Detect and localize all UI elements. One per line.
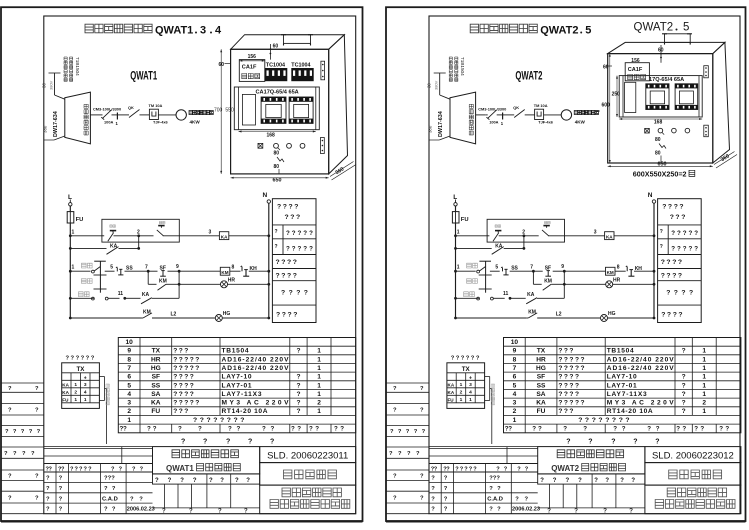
titleblock company cell (Shenzhen Shilede Electric) xyxy=(260,485,356,514)
svg-text:?: ? xyxy=(59,496,63,502)
svg-text:1: 1 xyxy=(72,229,75,235)
stop button SS contact xyxy=(501,266,533,275)
svg-text:SS: SS xyxy=(511,266,518,272)
revision margin text xyxy=(390,429,426,435)
titleblock scale/sheet header row xyxy=(538,474,645,484)
svg-text:?: ? xyxy=(91,356,95,362)
svg-text:MY3 AC 220V: MY3 AC 220V xyxy=(607,400,675,407)
svg-text:+: + xyxy=(84,375,87,381)
svg-text:1: 1 xyxy=(702,391,706,398)
svg-text:?: ? xyxy=(679,204,683,211)
svg-text:11: 11 xyxy=(118,291,124,297)
svg-text:?: ? xyxy=(689,246,693,253)
svg-text:?: ? xyxy=(292,246,296,253)
svg-text:?: ? xyxy=(178,426,182,433)
svg-text:?: ? xyxy=(132,466,136,472)
svg-text:?: ? xyxy=(564,348,568,355)
incoming supply top tick xyxy=(434,72,446,74)
svg-text:?: ? xyxy=(670,214,674,221)
svg-text:KA: KA xyxy=(536,400,546,407)
svg-text:KA: KA xyxy=(448,382,455,387)
door hinge strip upper xyxy=(704,66,709,78)
svg-text:?: ? xyxy=(292,230,296,237)
materials table row 4 SA xyxy=(127,391,321,398)
front height dimension line xyxy=(220,49,222,174)
svg-text:?: ? xyxy=(660,244,663,250)
svg-text:?: ? xyxy=(59,507,63,513)
svg-text:?: ? xyxy=(612,417,616,424)
svg-text:?: ? xyxy=(689,290,693,297)
revision margin column lines xyxy=(1,383,44,514)
cabinet top face xyxy=(231,35,345,50)
mounting panel xyxy=(619,76,702,117)
svg-text:?: ? xyxy=(200,417,204,424)
svg-text:?: ? xyxy=(155,478,159,484)
terminal list cell C xyxy=(272,259,316,269)
wire label L2 xyxy=(556,311,562,317)
svg-text:?: ? xyxy=(682,408,686,415)
incoming supply riser wire xyxy=(440,73,450,99)
svg-text:100A: 100A xyxy=(104,119,113,124)
svg-text:?: ? xyxy=(286,230,290,237)
contactor block no.1 xyxy=(261,97,286,123)
svg-text:QK: QK xyxy=(513,105,519,110)
selector contact auto position xyxy=(92,297,120,300)
svg-text:?: ? xyxy=(168,478,172,484)
svg-text:?: ? xyxy=(173,400,177,407)
svg-text:?: ? xyxy=(294,204,298,211)
svg-text:650: 650 xyxy=(658,161,667,167)
svg-text:?: ? xyxy=(407,451,411,457)
HG wire to N xyxy=(608,317,656,320)
titleblock signature row 2 xyxy=(46,486,116,492)
svg-text:?: ? xyxy=(719,426,723,433)
svg-text:?: ? xyxy=(525,466,529,472)
svg-text:?: ? xyxy=(287,259,291,266)
indicator lamp 3 xyxy=(300,143,305,148)
svg-text:?: ? xyxy=(207,417,211,424)
indicator lamp 2 xyxy=(287,143,292,148)
pump name label (fire elevator sump pump) xyxy=(574,111,598,125)
svg-text:?: ? xyxy=(296,214,300,221)
svg-text:?: ? xyxy=(532,426,536,433)
svg-text:?: ? xyxy=(235,478,239,484)
svg-text:?: ? xyxy=(538,426,542,433)
svg-text:3: 3 xyxy=(469,382,472,388)
svg-text:?: ? xyxy=(35,386,39,392)
svg-text:?: ? xyxy=(227,417,231,424)
rung2 wire to KM coil xyxy=(564,270,605,272)
contactor aux contact KM (seal) xyxy=(533,279,564,291)
svg-text:?: ? xyxy=(184,365,188,372)
KA seal branch wire xyxy=(69,247,107,250)
materials table row 7 HG xyxy=(513,365,707,372)
svg-text:?: ? xyxy=(671,246,675,253)
svg-text:?: ? xyxy=(661,312,665,319)
svg-text:100A: 100A xyxy=(489,119,498,124)
svg-text:?: ? xyxy=(248,439,252,446)
svg-text:?: ? xyxy=(569,382,573,389)
float switch contact a xyxy=(108,225,116,241)
svg-text:?: ? xyxy=(179,391,183,398)
neutral rail N label xyxy=(648,192,653,199)
svg-text:+: + xyxy=(469,375,472,381)
indicator lamp 1 xyxy=(658,128,664,134)
svg-text:?: ? xyxy=(244,508,248,514)
svg-text:4: 4 xyxy=(127,391,131,398)
svg-text:KA: KA xyxy=(448,390,455,395)
svg-text:?: ? xyxy=(393,495,397,501)
svg-text:FU: FU xyxy=(151,408,160,415)
terminal strip row KA xyxy=(448,382,473,388)
svg-text:1: 1 xyxy=(702,348,706,355)
svg-text:1: 1 xyxy=(460,382,463,388)
svg-text:?: ? xyxy=(303,246,307,253)
cabinet front face xyxy=(231,49,329,174)
svg-text:6: 6 xyxy=(127,374,131,381)
rung2 wire to KM coil xyxy=(179,270,220,272)
svg-text:?: ? xyxy=(213,417,217,424)
svg-text:LAY7-10: LAY7-10 xyxy=(607,374,637,381)
materials table row 6 SF xyxy=(127,374,321,381)
svg-text:RT14-20 10A: RT14-20 10A xyxy=(607,408,653,415)
titleblock signature row 3 xyxy=(431,496,528,502)
svg-text:KM: KM xyxy=(221,270,228,275)
relay contact KA (seal) xyxy=(107,244,139,255)
svg-text:?: ? xyxy=(414,429,418,435)
svg-text:?: ? xyxy=(613,426,617,433)
svg-text:QWAT2: QWAT2 xyxy=(634,22,674,34)
svg-text:2: 2 xyxy=(74,390,77,396)
contactor block no.2 xyxy=(675,84,698,110)
svg-text:QWAT1: QWAT1 xyxy=(166,464,194,473)
svg-text:?: ? xyxy=(682,426,686,433)
svg-text:?: ? xyxy=(416,451,420,457)
revision margin text xyxy=(5,429,41,435)
svg-text:?: ? xyxy=(81,356,85,362)
svg-text:3: 3 xyxy=(200,25,206,37)
svg-text:?: ? xyxy=(309,230,313,237)
svg-text:?: ? xyxy=(173,374,177,381)
svg-text:?: ? xyxy=(497,507,501,513)
svg-text:1: 1 xyxy=(501,121,504,126)
svg-text:LAY7-11X3: LAY7-11X3 xyxy=(607,391,647,398)
svg-text:650: 650 xyxy=(273,178,282,184)
svg-text:?: ? xyxy=(564,374,568,381)
terminal list small cell row1 xyxy=(658,225,702,255)
svg-text:QWAT2: QWAT2 xyxy=(540,25,578,37)
svg-text:?: ? xyxy=(35,474,39,480)
svg-text:1: 1 xyxy=(84,397,87,403)
indicator lamp 2 xyxy=(672,128,677,133)
isolator contact xyxy=(117,105,149,118)
svg-text:?: ? xyxy=(293,312,297,319)
svg-text:?: ? xyxy=(296,382,300,389)
svg-text:?: ? xyxy=(8,386,12,392)
svg-text:?: ? xyxy=(422,429,426,435)
node 9 xyxy=(561,264,565,272)
terminal list small cell row2 xyxy=(272,244,316,255)
revision margin text xyxy=(393,474,424,480)
svg-text:QWAT1: QWAT1 xyxy=(155,25,193,37)
svg-text:?: ? xyxy=(398,451,402,457)
svg-text:?: ? xyxy=(575,356,579,363)
svg-text:?: ? xyxy=(682,391,686,398)
materials table grid xyxy=(118,338,355,433)
thermal relay TM 10A xyxy=(149,103,169,125)
svg-text:?: ? xyxy=(497,486,501,492)
svg-text:KM: KM xyxy=(544,279,552,285)
svg-text:?: ? xyxy=(605,417,609,424)
svg-text:?: ? xyxy=(297,426,301,433)
materials table row 9 TX xyxy=(513,348,707,355)
svg-text:30: 30 xyxy=(427,83,432,88)
svg-text:?: ? xyxy=(666,290,670,297)
svg-text:C.A.D: C.A.D xyxy=(487,496,503,502)
materials table row 5 SS xyxy=(513,382,707,389)
revision margin text xyxy=(8,386,39,392)
svg-text:1: 1 xyxy=(72,265,75,271)
svg-text:?: ? xyxy=(558,382,562,389)
svg-text:?: ? xyxy=(276,259,280,266)
svg-text:1: 1 xyxy=(317,348,321,355)
selector label manual xyxy=(467,263,478,268)
svg-text:?: ? xyxy=(193,417,197,424)
svg-text:TB1504: TB1504 xyxy=(607,348,634,355)
materials table row 6 SF xyxy=(513,374,707,381)
pump motor M xyxy=(561,110,571,120)
svg-text:?: ? xyxy=(689,230,693,237)
titleblock drawing number cell xyxy=(645,447,741,463)
svg-text:DW17-634: DW17-634 xyxy=(53,111,59,137)
svg-text:?: ? xyxy=(119,466,123,472)
titleblock scale/sheet header row xyxy=(153,474,260,484)
svg-text:?: ? xyxy=(662,204,666,211)
svg-text:7: 7 xyxy=(530,265,533,271)
node 2 xyxy=(137,229,140,237)
svg-text:11: 11 xyxy=(503,291,509,297)
svg-text:?: ? xyxy=(398,429,402,435)
circuit breaker CM3-100L/3300 xyxy=(478,106,506,124)
svg-text:?: ? xyxy=(234,417,238,424)
titleblock signature row 4 xyxy=(46,507,155,513)
svg-text:8: 8 xyxy=(617,265,620,271)
svg-text:?: ? xyxy=(281,290,285,297)
terminal list cell F xyxy=(276,312,297,319)
svg-text:3: 3 xyxy=(127,400,131,407)
svg-text:FU: FU xyxy=(448,397,455,402)
selector label auto xyxy=(464,292,475,297)
svg-text:?: ? xyxy=(246,478,250,484)
svg-text:?: ? xyxy=(179,400,183,407)
svg-text:?: ? xyxy=(184,391,188,398)
seal riser to node 9 xyxy=(563,271,566,285)
svg-text:KA: KA xyxy=(527,292,535,298)
svg-text:?: ? xyxy=(296,290,300,297)
svg-text:?: ? xyxy=(578,478,582,484)
svg-text:2: 2 xyxy=(460,390,463,396)
svg-text:SS: SS xyxy=(151,382,160,389)
svg-text:?: ? xyxy=(677,230,681,237)
height dimension 600 xyxy=(602,54,611,163)
svg-text:?: ? xyxy=(104,507,108,513)
svg-text:?: ? xyxy=(682,382,686,389)
feeder wire from cabinet xyxy=(476,114,486,116)
svg-text:?: ? xyxy=(581,400,585,407)
fuse FU xyxy=(67,212,83,223)
svg-text:KM: KM xyxy=(607,270,614,275)
svg-text:?: ? xyxy=(558,348,562,355)
svg-text:?: ? xyxy=(22,451,26,457)
relay coil KA xyxy=(605,232,614,240)
materials table grid xyxy=(504,338,741,433)
seal riser to node 9 xyxy=(178,271,181,285)
svg-text:?: ? xyxy=(198,426,202,433)
HR wire to N xyxy=(613,283,656,286)
svg-text:?: ? xyxy=(290,214,294,221)
svg-text:?: ? xyxy=(558,374,562,381)
svg-text:5: 5 xyxy=(513,382,517,389)
KM seal branch riser xyxy=(532,271,534,284)
titleblock signature row 3 xyxy=(46,496,143,502)
sheet 2 bottom scan line xyxy=(386,521,746,523)
svg-text:?: ? xyxy=(525,496,529,502)
svg-text:?: ? xyxy=(683,246,687,253)
rail L terminal xyxy=(69,203,72,206)
revision margin text xyxy=(393,495,424,501)
selector contact manual position xyxy=(92,267,101,273)
svg-text:?: ? xyxy=(682,348,686,355)
svg-text:?: ? xyxy=(147,426,151,433)
selector label manual xyxy=(82,263,93,268)
svg-text:?: ? xyxy=(625,417,629,424)
svg-text:550: 550 xyxy=(225,107,234,113)
svg-text:3: 3 xyxy=(513,400,517,407)
svg-text:?: ? xyxy=(460,466,464,472)
svg-text:5: 5 xyxy=(127,382,131,389)
node 11 xyxy=(118,291,126,300)
terminal list small cell row2 xyxy=(658,244,702,255)
materials table row 2 FU xyxy=(127,408,321,415)
indicator lamp HG xyxy=(601,311,616,321)
rung1 wire left xyxy=(454,229,487,237)
corner label QWAT2,5 xyxy=(634,22,690,34)
svg-text:?: ? xyxy=(262,426,266,433)
contactor block no.2 xyxy=(289,97,313,123)
svg-text:?: ? xyxy=(674,290,678,297)
dimension 156 xyxy=(625,58,649,64)
contactor block no.1 xyxy=(646,84,669,110)
relay contact KA (auto) xyxy=(125,292,179,304)
svg-text:?: ? xyxy=(46,486,50,492)
svg-text:?: ? xyxy=(49,466,53,472)
switch DW17-634 vertical label xyxy=(438,111,444,137)
rung1 wire to coil xyxy=(163,229,220,235)
spacing arrow mark xyxy=(277,157,284,162)
svg-text:?: ? xyxy=(575,400,579,407)
sheet 1 bottom scan line xyxy=(1,521,363,523)
svg-text:?: ? xyxy=(575,382,579,389)
left dimension 60 xyxy=(603,65,612,71)
svg-text:TJF-4x6: TJF-4x6 xyxy=(538,120,554,125)
svg-text:?: ? xyxy=(633,439,637,446)
svg-text:?: ? xyxy=(694,230,698,237)
svg-text:?: ? xyxy=(694,246,698,253)
terminal strip row KA xyxy=(62,390,87,396)
materials table row 8 HR xyxy=(513,356,707,363)
titleblock signature grid lines xyxy=(429,464,538,514)
svg-text:?: ? xyxy=(277,204,281,211)
incoming supply top tick xyxy=(49,72,61,74)
svg-text:?: ? xyxy=(179,382,183,389)
rung1 wire left xyxy=(69,229,102,237)
TX bracket rotated label xyxy=(106,384,110,405)
svg-text:SS: SS xyxy=(126,266,133,272)
rung1 wire to N xyxy=(614,234,655,237)
contactor aux contact KM (lamp) xyxy=(142,310,216,318)
svg-text:?: ? xyxy=(75,466,79,472)
svg-text:?: ? xyxy=(682,374,686,381)
rung3 wire left xyxy=(69,297,94,300)
svg-text:?: ? xyxy=(671,230,675,237)
svg-text:MY3 AC 220V: MY3 AC 220V xyxy=(222,400,290,407)
svg-text:?: ? xyxy=(190,374,194,381)
titleblock signature row 1 xyxy=(431,476,500,482)
svg-text:?: ? xyxy=(564,365,568,372)
materials table row 4 SA xyxy=(513,391,707,398)
svg-text:?: ? xyxy=(683,230,687,237)
svg-text:?: ? xyxy=(489,486,493,492)
node 2 xyxy=(522,229,525,237)
terminal strip TX title xyxy=(462,366,471,373)
titleblock signature header row xyxy=(44,464,153,473)
svg-text:?: ? xyxy=(296,348,300,355)
current transformer tick xyxy=(497,113,504,127)
svg-text:?: ? xyxy=(228,426,232,433)
svg-text:?: ? xyxy=(700,426,704,433)
svg-text:?: ? xyxy=(605,478,609,484)
svg-text:?: ? xyxy=(592,417,596,424)
thermal relay TM 10A xyxy=(534,103,554,125)
svg-text:?: ? xyxy=(444,496,448,502)
svg-text:?: ? xyxy=(678,273,682,280)
indicator lamp 3 xyxy=(685,128,690,133)
svg-text:?: ? xyxy=(631,478,635,484)
rail L wire xyxy=(69,200,71,319)
svg-text:1: 1 xyxy=(317,408,321,415)
selector contact auto position xyxy=(477,297,505,300)
note text: this drawing applies to QWAT1,3,4 xyxy=(85,24,222,36)
svg-text:600: 600 xyxy=(602,103,611,109)
mounting panel xyxy=(234,87,319,130)
svg-text:?: ? xyxy=(181,439,185,446)
terminal strip TX row plus xyxy=(469,375,472,381)
wire label L2 xyxy=(171,311,177,317)
wire to pump motor xyxy=(158,114,176,116)
revision margin text xyxy=(4,451,35,457)
svg-text:?: ? xyxy=(112,486,116,492)
level controller boundary box xyxy=(102,219,179,242)
svg-text:?: ? xyxy=(622,426,626,433)
titleblock signature row 1 xyxy=(46,476,115,482)
svg-text:?: ? xyxy=(184,348,188,355)
svg-text:?: ? xyxy=(184,374,188,381)
cable spec vertical label xyxy=(64,57,80,81)
svg-text:?: ? xyxy=(611,439,615,446)
svg-text:?: ? xyxy=(184,382,188,389)
svg-text:?: ? xyxy=(283,204,287,211)
svg-text:?: ? xyxy=(8,495,12,501)
